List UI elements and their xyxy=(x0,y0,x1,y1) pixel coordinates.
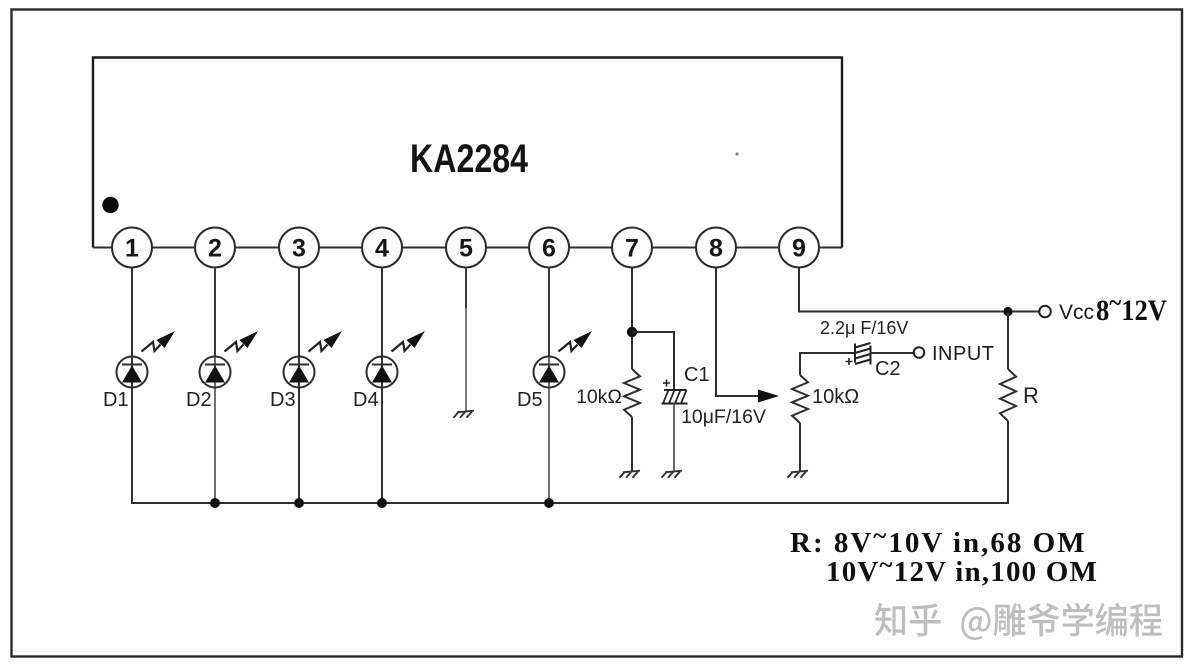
pin 3 xyxy=(279,228,319,268)
svg-text:1: 1 xyxy=(125,235,139,263)
svg-text:INPUT: INPUT xyxy=(932,343,995,365)
svg-text:D2: D2 xyxy=(186,389,212,411)
svg-text:7: 7 xyxy=(625,235,639,263)
svg-text:9: 9 xyxy=(792,235,806,263)
svg-text:D4: D4 xyxy=(353,389,379,411)
node bus junction x=382 xyxy=(377,498,387,508)
LED D3 xyxy=(284,357,315,388)
wire pin9 to Vcc rail xyxy=(799,268,1039,312)
terminal INPUT xyxy=(914,347,925,358)
pin 1 xyxy=(112,228,152,268)
wire pin8 down and right xyxy=(716,268,760,397)
svg-text:Vcc: Vcc xyxy=(1059,301,1094,324)
svg-text:KA2284: KA2284 xyxy=(410,137,529,181)
arrowhead wiper pin8 xyxy=(758,390,779,403)
svg-text:C2: C2 xyxy=(875,358,901,380)
svg-text:10μF/16V: 10μF/16V xyxy=(681,406,766,428)
wire resistor to ground xyxy=(631,417,633,471)
capacitor C1 xyxy=(662,380,688,404)
svg-text:10V~12V in,100 OM: 10V~12V in,100 OM xyxy=(826,552,1098,588)
ground resistor 10k xyxy=(620,471,641,478)
wire bottom bus xyxy=(131,502,1009,504)
pin 9 xyxy=(779,228,819,268)
pin 5 xyxy=(446,228,486,268)
node junction pin7/C1 xyxy=(627,327,637,337)
pin 6 xyxy=(529,228,569,268)
svg-text:2.2μ F/16V: 2.2μ F/16V xyxy=(820,318,908,338)
wire C2 to INPUT xyxy=(871,352,914,354)
pin 4 xyxy=(362,228,402,268)
watermark zhihu xyxy=(875,603,1162,640)
wire pin7 down xyxy=(631,268,633,370)
resistor R xyxy=(1000,369,1016,421)
pin-1 indicator dot xyxy=(102,197,118,213)
svg-text:C1: C1 xyxy=(684,364,710,386)
svg-text:10kΩ: 10kΩ xyxy=(812,386,859,408)
IC U1 KA2284 body xyxy=(93,58,842,248)
svg-text:3: 3 xyxy=(292,235,306,263)
svg-text:D5: D5 xyxy=(517,389,543,411)
pin 7 xyxy=(612,228,652,268)
wire pin4 to LED D4 and bus xyxy=(381,268,383,504)
svg-text:D1: D1 xyxy=(103,389,129,411)
ground C1 xyxy=(662,471,683,478)
svg-text:D3: D3 xyxy=(270,389,296,411)
wire pin1 to LED D1 and bus xyxy=(131,268,133,504)
stray speck xyxy=(735,152,738,155)
wire R down to bus xyxy=(1007,421,1009,503)
svg-text:10kΩ: 10kΩ xyxy=(576,386,622,408)
svg-text:2: 2 xyxy=(208,235,222,263)
wire pin5 to ground xyxy=(465,268,467,309)
terminal Vcc xyxy=(1039,306,1051,318)
wire pin3 to LED D3 and bus xyxy=(298,268,300,504)
resistor pot 10k xyxy=(792,375,808,423)
node bus junction x=299 xyxy=(294,498,304,508)
ground pin5 xyxy=(454,411,475,418)
svg-text:R: R xyxy=(1023,383,1039,408)
node bus junction x=215 xyxy=(210,498,220,508)
svg-text:8: 8 xyxy=(709,235,723,263)
pin 8 xyxy=(696,228,736,268)
wire pot to ground xyxy=(799,423,801,471)
LED D5 xyxy=(534,357,565,388)
node bus junction x=549 xyxy=(544,498,554,508)
LED D2 xyxy=(200,357,231,388)
wire pot top bend to C2 line xyxy=(800,353,854,375)
svg-text:4: 4 xyxy=(375,235,389,263)
node junction Vcc/R xyxy=(1003,307,1012,316)
svg-text:5: 5 xyxy=(459,235,473,263)
wire node to C1 xyxy=(632,332,674,390)
capacitor C2 xyxy=(846,343,871,365)
wire Vcc node down to R xyxy=(1007,312,1009,370)
wire pin row xyxy=(93,247,842,249)
svg-text:8~12V: 8~12V xyxy=(1096,288,1167,327)
LED D4 xyxy=(367,357,398,388)
LED D1 xyxy=(117,357,148,388)
wire pin2 to LED D2 and bus xyxy=(214,268,216,358)
resistor 10k (pin7) xyxy=(624,369,640,417)
wire pin6 to LED D5 and bus xyxy=(548,268,550,358)
svg-text:6: 6 xyxy=(542,235,556,263)
svg-text:R: 8V~10V in,68 OM: R: 8V~10V in,68 OM xyxy=(790,523,1087,559)
pin 2 xyxy=(195,228,235,268)
wire C1 to ground xyxy=(673,404,675,472)
ground pot xyxy=(788,471,809,478)
